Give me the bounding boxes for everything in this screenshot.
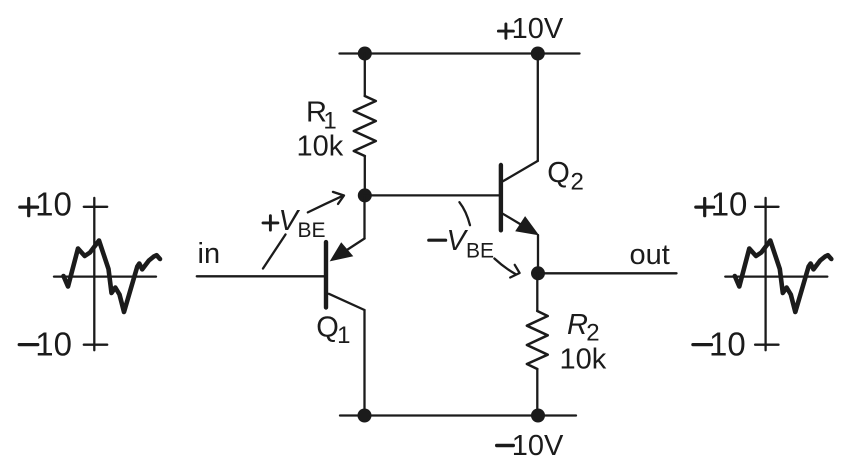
output graph horizontal axis [725, 275, 827, 277]
svg-text:10k: 10k [560, 343, 607, 375]
output waveform trace [735, 241, 832, 313]
svg-text:10V: 10V [512, 430, 564, 462]
svg-text:10: 10 [35, 186, 72, 223]
output graph +10 label [696, 199, 714, 216]
input waveform graph [19, 186, 160, 363]
svg-text:BE: BE [298, 219, 326, 242]
leader line from input wire to +VBE [263, 235, 286, 269]
junction dot: R2 bottom at -10V rail [531, 409, 545, 423]
wire: -10V supply rail [340, 414, 576, 416]
annotation +VBE label [263, 205, 326, 242]
wire: Q1 collector to -10V rail [363, 310, 365, 416]
transistor Q1 (PNP) [326, 195, 365, 310]
resistor R2 [527, 273, 548, 415]
wire: Q2 collector to +10V rail [537, 54, 539, 161]
svg-text:1: 1 [337, 322, 350, 349]
output graph -10 label [693, 343, 712, 346]
input graph -10 tick [84, 344, 107, 346]
wire: output node to out [538, 272, 677, 274]
output waveform graph [693, 186, 831, 363]
svg-text:10k: 10k [297, 131, 344, 163]
junction dot: Q2 collector at +10V rail [531, 47, 545, 61]
svg-text:Q: Q [316, 312, 339, 344]
svg-text:10: 10 [711, 186, 748, 223]
wire: input to Q1 base [197, 275, 324, 277]
input graph +10 tick [84, 206, 107, 208]
wire: +10V supply rail [340, 52, 580, 54]
junction dot: R1 top at +10V rail [358, 47, 372, 61]
leader line from Q2 base to -VBE [459, 202, 470, 225]
label Q2 [547, 157, 584, 195]
svg-text:out: out [630, 239, 670, 271]
resistor R1 [354, 54, 376, 196]
annotation -VBE label [429, 225, 494, 263]
svg-text:Q: Q [547, 157, 570, 189]
input graph vertical axis [93, 198, 95, 350]
label +10V [498, 13, 563, 45]
svg-text:10: 10 [35, 325, 72, 362]
node A junction dot (R1 / Q1 emitter / Q2 base) [358, 188, 372, 202]
curved arrow from +VBE to node A [308, 192, 344, 213]
junction dot: output node [531, 266, 545, 280]
svg-text:R: R [567, 309, 588, 341]
svg-text:10V: 10V [512, 13, 564, 45]
input graph -10 label [19, 343, 38, 346]
output graph -10 tick [755, 344, 778, 346]
wire: node A to Q2 base [365, 194, 499, 196]
input graph horizontal axis [54, 275, 156, 277]
input waveform trace [64, 241, 161, 313]
svg-text:in: in [198, 238, 221, 270]
curved arrow from -VBE to output node [494, 259, 519, 278]
label -10V [497, 430, 564, 462]
output graph vertical axis [764, 198, 766, 350]
svg-text:BE: BE [466, 240, 494, 263]
junction dot: Q1 collector at -10V rail [358, 409, 372, 423]
label Q1 [316, 312, 350, 350]
svg-text:10: 10 [709, 325, 746, 362]
input graph +10 label [20, 199, 38, 216]
transistor Q2 (NPN) [501, 161, 539, 273]
svg-text:2: 2 [571, 168, 584, 195]
output graph +10 tick [755, 206, 778, 208]
label R1 [306, 96, 337, 134]
label R2 [567, 309, 600, 347]
